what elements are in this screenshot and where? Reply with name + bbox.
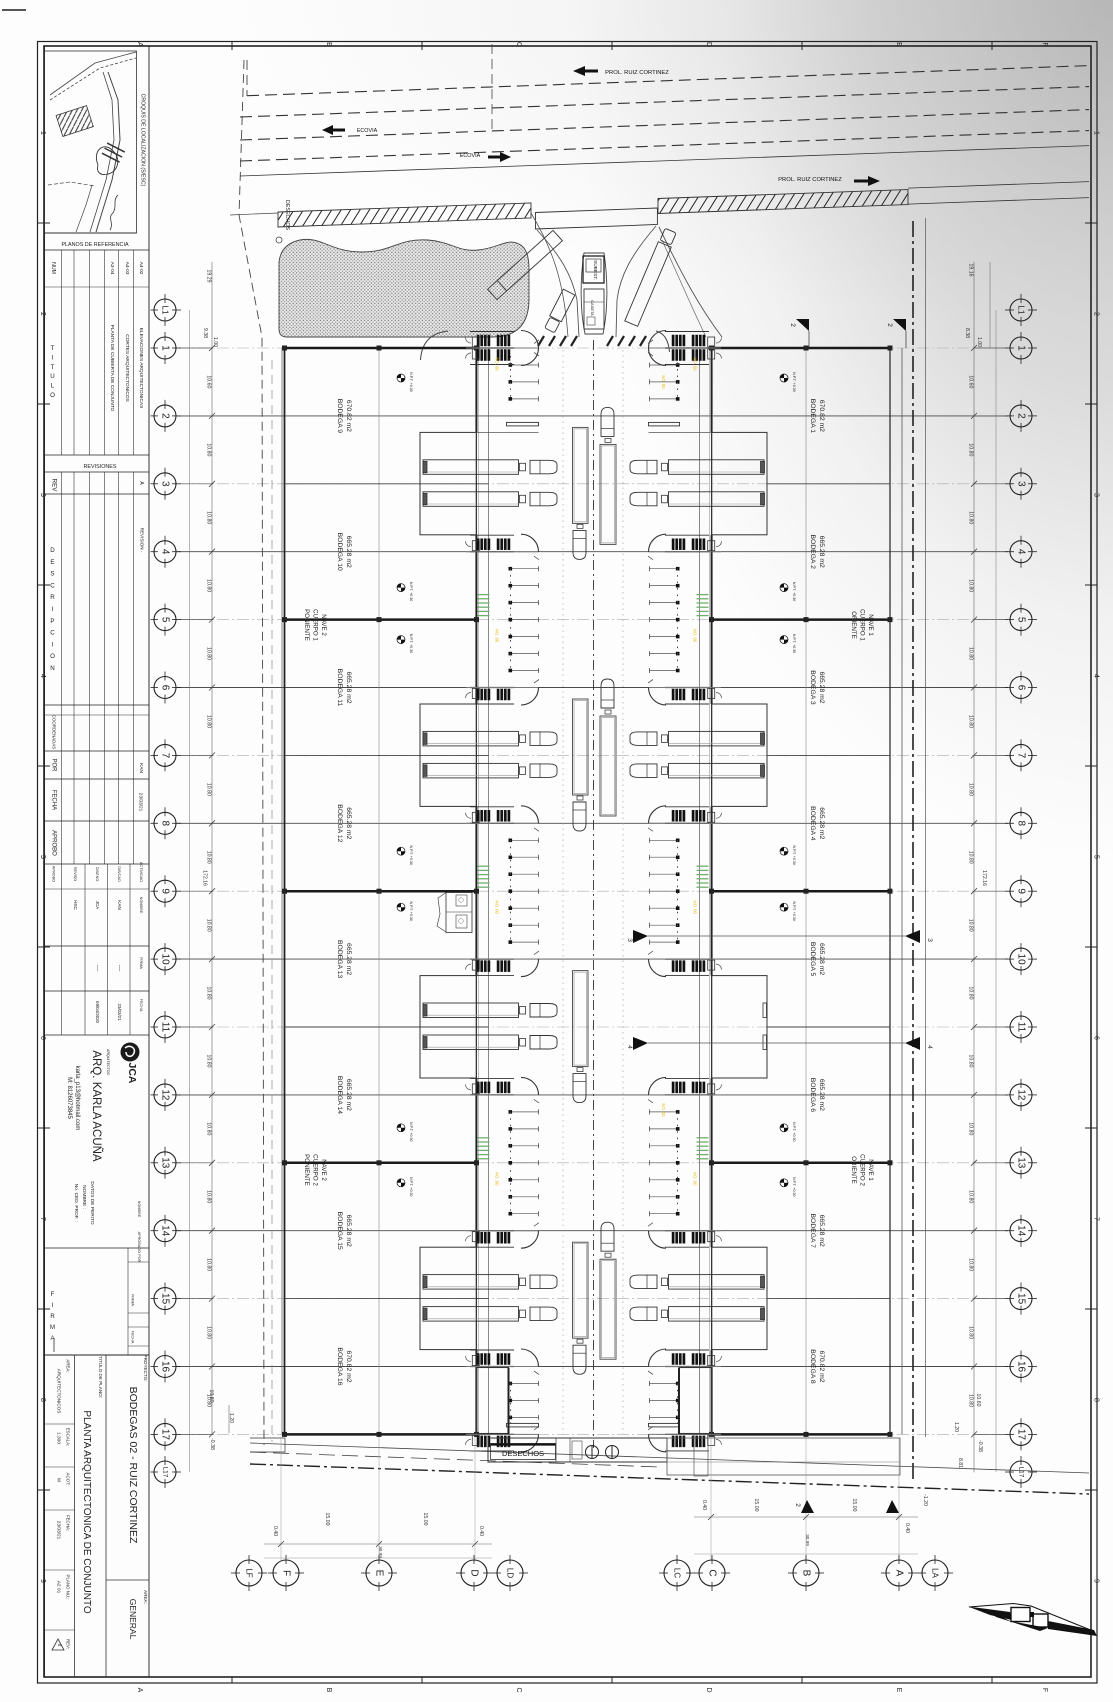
curb return arc west of entrance — [421, 331, 449, 360]
entrance throat curb left — [537, 230, 579, 337]
svg-text:C: C — [50, 630, 55, 637]
trucks west pocket 13 — [423, 1275, 519, 1290]
svg-text:10.80: 10.80 — [206, 511, 212, 524]
svg-text:D: D — [469, 1569, 480, 1576]
svg-text:O: O — [50, 653, 55, 660]
svg-text:I: I — [52, 354, 54, 361]
svg-text:4: 4 — [926, 1045, 933, 1049]
svg-text:A: A — [136, 1688, 143, 1693]
svg-text:REV: REV — [51, 479, 58, 493]
staff table — [45, 863, 150, 865]
bubble column LD — [497, 1560, 523, 1586]
svg-text:665.28 m2: 665.28 m2 — [345, 1079, 352, 1111]
svg-text:2: 2 — [789, 323, 796, 327]
svg-text:PLANTA DE CUBIERTA DE CONJUNTO: PLANTA DE CUBIERTA DE CONJUNTO — [109, 325, 115, 412]
intermediate wall grid 7 e — [767, 754, 890, 756]
svg-text:N.P.T. +0.30: N.P.T. +0.30 — [792, 582, 796, 601]
svg-text:ECOVIA: ECOVIA — [460, 153, 481, 159]
proyecto block — [45, 1354, 150, 1356]
svg-text:10.80: 10.80 — [968, 443, 974, 456]
svg-text:NO. 00: NO. 00 — [693, 357, 698, 371]
svg-text:M: M — [50, 1325, 55, 1331]
svg-text:LA: LA — [931, 1568, 940, 1578]
southbound semi row 2 — [573, 427, 589, 523]
svg-text:PROL. RUIZ CORTINEZ: PROL. RUIZ CORTINEZ — [778, 177, 842, 183]
svg-text:DESECHOS: DESECHOS — [502, 1449, 544, 1458]
svg-text:No. CED. PROF. :: No. CED. PROF. : — [73, 1184, 79, 1222]
svg-text:7: 7 — [1016, 753, 1027, 759]
svg-text:665.28 m2: 665.28 m2 — [345, 536, 352, 568]
datos de perito block — [45, 1247, 150, 1249]
svg-text:9: 9 — [1093, 1579, 1100, 1583]
building west outer walls — [476, 348, 478, 432]
dock cluster w at y 823 — [477, 810, 479, 821]
svg-text:0.40: 0.40 — [478, 1526, 484, 1536]
svg-text:BODEGA 13: BODEGA 13 — [336, 940, 343, 978]
svg-text:10.80: 10.80 — [968, 1326, 974, 1339]
rev row — [45, 493, 150, 495]
svg-text:-0.38: -0.38 — [977, 1440, 983, 1452]
svg-text:19.29: 19.29 — [206, 270, 212, 283]
svg-text:A: A — [894, 1570, 905, 1577]
svg-text:BODEGA 12: BODEGA 12 — [336, 804, 343, 842]
east pocket doors empty bay — [763, 1003, 767, 1018]
bubble column LC — [664, 1560, 690, 1586]
svg-text:14: 14 — [1016, 1225, 1027, 1237]
svg-text:09/04/2020: 09/04/2020 — [95, 1001, 100, 1024]
dock cluster e at y 1366 — [672, 1354, 674, 1365]
svg-text:11: 11 — [160, 1022, 171, 1033]
svg-text:4: 4 — [626, 1045, 633, 1049]
svg-text:B: B — [801, 1570, 812, 1577]
bubble grid 16 right — [1010, 1356, 1032, 1378]
svg-text:10.80: 10.80 — [968, 511, 974, 524]
trucks east pocket 1 — [669, 460, 765, 475]
svg-text:U: U — [50, 373, 54, 380]
svg-text:I: I — [52, 641, 54, 648]
svg-text:N.P.T. +0.30: N.P.T. +0.30 — [792, 901, 796, 920]
svg-text:KAN: KAN — [138, 763, 144, 773]
svg-text:16: 16 — [1016, 1361, 1027, 1373]
svg-text:5: 5 — [1093, 855, 1100, 859]
svg-text:ARQUITECTOS: ARQUITECTOS — [106, 1049, 110, 1075]
bubble grid 9 right — [1010, 880, 1032, 902]
svg-text:BODEGA 3: BODEGA 3 — [809, 670, 816, 705]
svg-text:N.P.T. +0.30: N.P.T. +0.30 — [409, 845, 413, 864]
intermediate wall grid 11 w — [285, 1026, 489, 1028]
descripcion column — [61, 494, 63, 705]
bubble grid 17 right — [1010, 1423, 1032, 1445]
svg-text:0: 0 — [57, 1644, 62, 1647]
zebra crossing top — [538, 336, 544, 346]
road dashed lines top — [247, 66, 1089, 96]
svg-text:10.80: 10.80 — [968, 783, 974, 796]
trucks west pocket 9 — [423, 1003, 519, 1018]
svg-text:1.00: 1.00 — [212, 337, 218, 347]
svg-text:12: 12 — [1016, 1089, 1027, 1101]
northbound semi row 14 — [601, 1222, 614, 1251]
svg-text:BODEGA 6: BODEGA 6 — [809, 1078, 816, 1113]
svg-text:10.80: 10.80 — [206, 1258, 212, 1271]
intermediate wall grid 15 w — [285, 1298, 489, 1300]
coordenadas row — [45, 704, 150, 706]
svg-text:KAN: KAN — [117, 900, 122, 909]
svg-text:T: T — [51, 364, 55, 371]
svg-text:NO. 00: NO. 00 — [495, 629, 500, 643]
bubble grid 10 left — [154, 948, 176, 970]
revisiones band — [45, 454, 150, 456]
svg-text:17: 17 — [1016, 1429, 1027, 1441]
svg-text:TITULO DE PLANO:: TITULO DE PLANO: — [98, 1356, 103, 1398]
svg-text:L17: L17 — [162, 1467, 169, 1478]
entrance gate bar — [536, 208, 658, 229]
svg-text:FIRMA: FIRMA — [131, 1294, 135, 1306]
east property line dash-dot bold — [912, 221, 914, 1480]
entrance truck 3 small — [544, 289, 575, 333]
svg-text:0.40: 0.40 — [272, 1526, 278, 1536]
svg-text:CUERPO 1: CUERPO 1 — [312, 609, 319, 641]
svg-text:665.28 m2: 665.28 m2 — [818, 671, 825, 703]
svg-text:PLANTA ARQUITECTONICA DE CONJU: PLANTA ARQUITECTONICA DE CONJUNTO — [81, 1410, 92, 1614]
svg-text:B: B — [325, 1688, 332, 1693]
bubble column C — [699, 1560, 725, 1586]
svg-text:NAVE 2: NAVE 2 — [320, 614, 327, 636]
svg-text:T: T — [51, 345, 55, 352]
bubble grid 13 left — [154, 1152, 176, 1174]
svg-text:1.20: 1.20 — [953, 1422, 959, 1432]
dock cluster e at y 1434 — [672, 1436, 674, 1447]
svg-text:NO. 00: NO. 00 — [693, 629, 698, 643]
left dimension chain — [211, 262, 213, 1434]
svg-text:PONIENTE: PONIENTE — [303, 1154, 310, 1186]
svg-text:ELEVACIONES ARQUITECTONICAS: ELEVACIONES ARQUITECTONICAS — [138, 328, 144, 409]
svg-text:M: 8126073845: M: 8126073845 — [66, 1077, 72, 1119]
svg-text:15.00: 15.00 — [851, 1499, 857, 1512]
bodega wall grid 9 e — [712, 890, 891, 893]
walkway line e — [699, 348, 701, 1434]
dock cluster w at y 1434 — [477, 1436, 479, 1447]
curb return arc east of entrance — [656, 331, 670, 352]
trucks west pocket 1 — [423, 460, 519, 475]
svg-text:670.82 m2: 670.82 m2 — [345, 400, 352, 432]
bubble grid 7 right — [1010, 744, 1032, 766]
southbound semi row 14 — [573, 1242, 589, 1338]
bodega wall grid 17 e — [712, 1433, 891, 1436]
svg-text:REV:: REV: — [66, 1639, 71, 1649]
svg-text:172.16: 172.16 — [202, 870, 208, 886]
svg-text:10.80: 10.80 — [968, 919, 974, 932]
svg-text:FECHA: FECHA — [139, 999, 143, 1012]
svg-text:17: 17 — [160, 1429, 171, 1441]
bubble grid 2 right — [1010, 405, 1032, 427]
road edge dotted west — [562, 350, 564, 1434]
svg-text:E: E — [895, 1688, 902, 1693]
svg-text:15.00: 15.00 — [324, 1513, 330, 1526]
svg-text:10.80: 10.80 — [206, 579, 212, 592]
SE corner room bodega 16 — [477, 1368, 509, 1434]
left witness line — [189, 310, 191, 1472]
bubble grid 6 left — [154, 677, 176, 699]
bodega wall grid 13 w — [285, 1162, 477, 1165]
svg-text:10: 10 — [160, 954, 171, 966]
svg-text:ARQ. KARLA ACUÑA: ARQ. KARLA ACUÑA — [90, 1050, 103, 1162]
svg-text:3: 3 — [1093, 493, 1100, 497]
section marker 3 line — [648, 935, 905, 937]
border reference ticks and letters — [231, 42, 233, 50]
svg-text:10.80: 10.80 — [968, 1394, 974, 1407]
svg-text:karla_p13@hotmail.com: karla_p13@hotmail.com — [74, 1066, 80, 1131]
svg-text:N.P.T. +0.30: N.P.T. +0.30 — [792, 634, 796, 653]
bodega wall grid 13 e — [712, 1162, 891, 1165]
sidewalk hatch band west — [278, 203, 531, 227]
title block frame — [45, 46, 150, 1677]
svg-text:GENERAL: GENERAL — [128, 1599, 138, 1640]
svg-text:665.28 m2: 665.28 m2 — [345, 943, 352, 975]
cistern circles — [586, 1446, 599, 1459]
dock cluster e at y 552 — [672, 539, 674, 550]
svg-text:2: 2 — [886, 323, 893, 327]
entrance truck 1 long diagonal — [488, 230, 563, 299]
svg-text:R: R — [50, 594, 55, 601]
bodega wall grid 5 e — [712, 618, 891, 621]
northbound semi row 6 — [601, 679, 614, 708]
svg-text:0.40: 0.40 — [701, 1500, 707, 1510]
svg-text:DESECHOS: DESECHOS — [284, 200, 290, 231]
west property line dashed — [239, 60, 264, 1445]
svg-text:N.P.T. +0.30: N.P.T. +0.30 — [409, 901, 413, 920]
svg-text:15.00: 15.00 — [422, 1513, 428, 1526]
svg-text:8: 8 — [1016, 821, 1027, 827]
central road center line — [593, 340, 595, 1448]
bubble grid 3 right — [1010, 473, 1032, 495]
bodega wall grid 9 w — [285, 890, 477, 893]
svg-text:C: C — [515, 42, 522, 47]
svg-text:3: 3 — [926, 938, 933, 942]
dock cluster w at y 1366 — [477, 1354, 479, 1365]
JCA logo — [121, 1043, 140, 1062]
svg-text:10.80: 10.80 — [206, 443, 212, 456]
svg-text:12: 12 — [160, 1089, 171, 1101]
svg-text:APROBO: APROBO — [51, 830, 57, 856]
svg-text:670.82 m2: 670.82 m2 — [818, 400, 825, 432]
svg-text:DATOS DE PERITO: DATOS DE PERITO — [89, 1181, 95, 1224]
dock cluster w at y 1231 — [477, 1232, 479, 1243]
architect logo block — [45, 1034, 150, 1036]
dock pocket e — [712, 432, 768, 534]
svg-text:BODEGA 15: BODEGA 15 — [336, 1212, 343, 1250]
svg-text:O: O — [50, 392, 55, 399]
bodega wall grid 5 w — [285, 618, 477, 621]
dock pocket w — [420, 1247, 477, 1349]
svg-text:BODEGAS 02 - RUIZ CORTINEZ: BODEGAS 02 - RUIZ CORTINEZ — [127, 1387, 139, 1544]
svg-text:BODEGA 9: BODEGA 9 — [336, 399, 343, 434]
section marker 2 bottom left — [801, 1500, 814, 1513]
bubble grid 17 left — [154, 1423, 176, 1445]
column line w — [378, 348, 380, 1434]
bubble grid 8 left — [154, 812, 176, 834]
svg-text:D: D — [705, 42, 712, 47]
svg-text:NAVE 1: NAVE 1 — [867, 614, 874, 636]
svg-text:10.60: 10.60 — [206, 375, 212, 388]
reference table — [61, 250, 63, 455]
svg-text:C: C — [50, 582, 55, 589]
entrance median island outline — [581, 253, 607, 334]
svg-text:14: 14 — [160, 1225, 171, 1237]
svg-text:ACOT:: ACOT: — [66, 1473, 71, 1486]
section marker 2 bottom right — [886, 1500, 899, 1513]
right dimension chain — [973, 262, 975, 1472]
svg-text:19.16: 19.16 — [968, 264, 974, 277]
trucks east pocket 5 — [669, 731, 765, 746]
svg-text:172.16: 172.16 — [981, 870, 987, 886]
svg-text:DISENO: DISENO — [95, 867, 99, 882]
svg-text:10.80: 10.80 — [206, 1055, 212, 1068]
svg-text:10.80: 10.80 — [206, 987, 212, 1000]
bottom dim line left group — [264, 1543, 492, 1545]
svg-text:8.81: 8.81 — [957, 1458, 963, 1468]
svg-text:10.80: 10.80 — [206, 783, 212, 796]
bodega wall grid 17 w — [285, 1433, 477, 1436]
svg-text:10.80: 10.80 — [968, 715, 974, 728]
svg-text:NAVE 1: NAVE 1 — [867, 1159, 874, 1181]
svg-text:10: 10 — [1016, 954, 1027, 966]
svg-text:NO. 00: NO. 00 — [495, 1172, 500, 1186]
svg-text:11: 11 — [1016, 1022, 1027, 1033]
svg-text:B: B — [325, 42, 332, 47]
svg-text:CORTES ARQUITECTONICOS: CORTES ARQUITECTONICOS — [124, 334, 130, 402]
svg-text:NO. 00: NO. 00 — [661, 1103, 666, 1117]
svg-text:16: 16 — [160, 1361, 171, 1373]
svg-text:BODEGA 11: BODEGA 11 — [336, 669, 343, 707]
svg-text:2: 2 — [160, 413, 171, 419]
entrance throat curb right — [616, 226, 656, 337]
bubble grid 5 right — [1010, 609, 1032, 631]
dock pocket e — [712, 976, 768, 1078]
svg-text:PROL. RUIZ CORTINEZ: PROL. RUIZ CORTINEZ — [605, 70, 669, 76]
svg-text:ECOVIA: ECOVIA — [357, 128, 378, 134]
svg-text:N.P.T. +0.30: N.P.T. +0.30 — [409, 372, 413, 391]
svg-text:----: ---- — [94, 965, 100, 972]
svg-text:2: 2 — [1093, 312, 1100, 316]
svg-text:5: 5 — [1016, 617, 1027, 623]
svg-text:APROBADO POR: APROBADO POR — [137, 1232, 141, 1263]
dock cluster e at y 348 — [672, 350, 674, 361]
svg-text:0.40: 0.40 — [904, 1523, 910, 1533]
svg-text:AREA:: AREA: — [143, 1590, 148, 1604]
svg-text:CUERPO 2: CUERPO 2 — [312, 1154, 319, 1186]
bubble grid 12 right — [1010, 1084, 1032, 1106]
svg-text:BODEGA 2: BODEGA 2 — [809, 535, 816, 570]
dock pocket w — [420, 432, 477, 534]
svg-text:N: N — [50, 665, 54, 672]
svg-text:10.80: 10.80 — [206, 1190, 212, 1203]
svg-text:15: 15 — [160, 1293, 171, 1305]
dock pocket e — [712, 1247, 768, 1349]
bubble column E — [366, 1560, 392, 1586]
croquis de localizacion box — [45, 51, 137, 233]
intermediate wall grid 11 e — [767, 1026, 890, 1028]
trucks east pocket 13 — [669, 1275, 765, 1290]
bubble column B — [793, 1560, 819, 1586]
dock pocket w — [420, 704, 477, 806]
svg-text:L17: L17 — [1018, 1467, 1025, 1478]
section marker 2 top right — [893, 319, 906, 331]
dock cluster w at y 552 — [477, 539, 479, 550]
svg-text:N.P.T. +0.30: N.P.T. +0.30 — [409, 634, 413, 653]
svg-text:ACTIVIDAD: ACTIVIDAD — [139, 862, 143, 883]
svg-text:COORDENADAS: COORDENADAS — [52, 715, 57, 749]
desechos room — [488, 1438, 667, 1462]
bubble grid 6 right — [1010, 677, 1032, 699]
svg-text:665.28 m2: 665.28 m2 — [818, 807, 825, 839]
svg-text:NAVE 2: NAVE 2 — [320, 1159, 327, 1181]
bubble grid 4 left — [154, 541, 176, 563]
svg-text:NO. 00: NO. 00 — [661, 375, 666, 389]
svg-text:4: 4 — [160, 549, 171, 555]
svg-text:7: 7 — [160, 753, 171, 759]
southbound semi row 6 — [573, 699, 589, 795]
svg-text:N.P.T. +0.30: N.P.T. +0.30 — [792, 845, 796, 864]
svg-text:8: 8 — [1093, 1398, 1100, 1402]
arrow ecovia right — [488, 152, 511, 162]
dock pocket w — [420, 976, 477, 1078]
svg-text:E: E — [374, 1570, 385, 1577]
arrow prol ruiz cortinez left — [573, 66, 598, 76]
bubble L17 left — [154, 1461, 176, 1483]
bubble L1 right — [1010, 299, 1032, 321]
svg-text:10.80: 10.80 — [968, 647, 974, 660]
dock pocket e — [712, 704, 768, 806]
svg-text:665.28 m2: 665.28 m2 — [818, 1215, 825, 1247]
svg-text:E: E — [895, 42, 902, 47]
intermediate wall grid 3 w — [285, 483, 489, 485]
west south stub — [250, 1438, 285, 1452]
bubble grid 1 right — [1010, 337, 1032, 359]
svg-text:2: 2 — [1016, 413, 1027, 419]
svg-text:ORIENTE: ORIENTE — [850, 1156, 857, 1184]
svg-text:A2 01: A2 01 — [56, 1581, 62, 1594]
bubble grid 3 left — [154, 473, 176, 495]
svg-text:10.80: 10.80 — [968, 1190, 974, 1203]
svg-text:FIRMA: FIRMA — [139, 957, 143, 969]
svg-text:665.28 m2: 665.28 m2 — [345, 807, 352, 839]
svg-text:REVISION -: REVISION - — [140, 528, 145, 553]
bubble grid 16 left — [154, 1356, 176, 1378]
svg-text:-1.20: -1.20 — [922, 1494, 928, 1506]
svg-text:8.38: 8.38 — [964, 328, 970, 338]
svg-text:670.82 m2: 670.82 m2 — [818, 1350, 825, 1382]
svg-text:10.80: 10.80 — [206, 851, 212, 864]
east drive curb curve — [659, 227, 722, 337]
entrance truck 2 right diagonal — [625, 228, 677, 326]
svg-text:10.80: 10.80 — [208, 1390, 214, 1403]
svg-text:PLANO NU.:: PLANO NU.: — [66, 1575, 71, 1600]
svg-text:A3-04: A3-04 — [109, 262, 115, 275]
caseta box — [584, 289, 604, 329]
svg-text:FECHA:: FECHA: — [66, 1515, 71, 1531]
svg-text:1: 1 — [1093, 131, 1100, 135]
svg-text:BODEGA 8: BODEGA 8 — [809, 1349, 816, 1384]
svg-text:I: I — [52, 606, 54, 613]
planos de referencia band — [45, 232, 137, 234]
svg-text:1: 1 — [160, 345, 171, 351]
svg-text:R: R — [50, 1314, 55, 1320]
dock cluster w at y 688 — [477, 689, 479, 700]
svg-text:BODEGA 7: BODEGA 7 — [809, 1214, 816, 1249]
dock cluster e at y 688 — [672, 689, 674, 700]
column line e — [805, 348, 807, 1434]
svg-text:N.P.T. +0.30: N.P.T. +0.30 — [792, 1122, 796, 1141]
